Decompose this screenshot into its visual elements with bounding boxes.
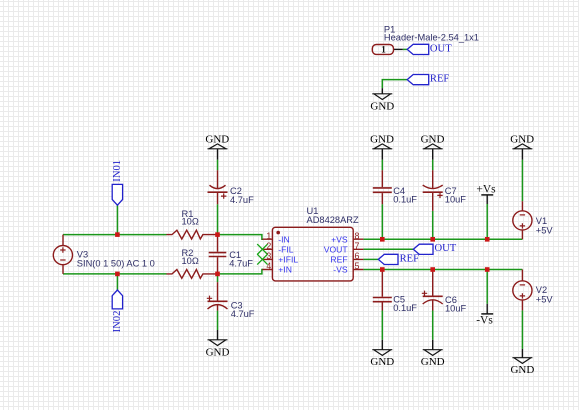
- svg-text:V2: V2: [536, 285, 547, 295]
- svg-text:SIN(0 1 50) AC 1 0: SIN(0 1 50) AC 1 0: [77, 259, 155, 269]
- svg-text:10uF: 10uF: [445, 304, 467, 314]
- svg-text:OUT: OUT: [430, 44, 452, 55]
- svg-text:-IN: -IN: [278, 234, 289, 244]
- svg-text:GND: GND: [421, 133, 445, 145]
- svg-text:GND: GND: [370, 133, 394, 145]
- svg-text:3: 3: [266, 251, 271, 261]
- svg-text:10Ω: 10Ω: [182, 256, 199, 266]
- svg-text:GND: GND: [370, 100, 394, 112]
- svg-text:REF: REF: [400, 253, 420, 264]
- svg-text:GND: GND: [510, 364, 534, 376]
- svg-text:1: 1: [381, 46, 386, 56]
- svg-text:4.7uF: 4.7uF: [231, 309, 255, 319]
- svg-text:10uF: 10uF: [445, 195, 467, 205]
- svg-text:7: 7: [355, 241, 360, 251]
- svg-text:5: 5: [355, 261, 360, 271]
- svg-text:OUT: OUT: [435, 243, 457, 254]
- svg-text:GND: GND: [205, 133, 229, 145]
- svg-text:V1: V1: [536, 216, 547, 226]
- svg-text:-VS: -VS: [333, 265, 348, 275]
- svg-text:+VS: +VS: [331, 234, 348, 244]
- svg-text:REF: REF: [330, 255, 347, 265]
- svg-text:GND: GND: [510, 133, 534, 145]
- svg-text:2: 2: [266, 241, 271, 251]
- svg-text:0.1uF: 0.1uF: [393, 195, 417, 205]
- svg-text:+5V: +5V: [536, 295, 554, 305]
- svg-text:IN01: IN01: [112, 160, 123, 182]
- svg-text:4: 4: [266, 261, 271, 271]
- svg-text:+Vs: +Vs: [476, 183, 496, 195]
- svg-text:GND: GND: [206, 346, 230, 358]
- svg-text:4.7uF: 4.7uF: [229, 259, 253, 269]
- svg-text:+IFIL: +IFIL: [278, 255, 298, 265]
- svg-text:+IN: +IN: [278, 265, 292, 275]
- svg-text:10Ω: 10Ω: [182, 217, 199, 227]
- svg-text:6: 6: [355, 251, 360, 261]
- svg-text:REF: REF: [430, 74, 450, 85]
- svg-text:1: 1: [266, 231, 271, 241]
- svg-text:-FIL: -FIL: [278, 244, 293, 254]
- svg-text:GND: GND: [370, 356, 394, 368]
- svg-text:AD8428ARZ: AD8428ARZ: [307, 215, 360, 225]
- svg-text:+5V: +5V: [536, 226, 554, 236]
- svg-text:Header-Male-2.54_1x1: Header-Male-2.54_1x1: [384, 33, 479, 43]
- svg-text:GND: GND: [421, 356, 445, 368]
- svg-text:0.1uF: 0.1uF: [393, 303, 417, 313]
- svg-text:-Vs: -Vs: [476, 314, 493, 326]
- svg-text:IN02: IN02: [112, 311, 123, 333]
- svg-text:4.7uF: 4.7uF: [230, 195, 254, 205]
- svg-text:8: 8: [355, 231, 360, 241]
- svg-text:VOUT: VOUT: [324, 244, 349, 254]
